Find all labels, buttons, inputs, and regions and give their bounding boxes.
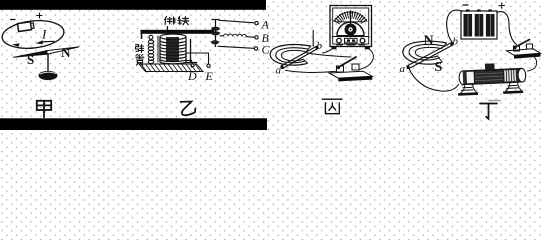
svg-text:a: a <box>400 63 406 75</box>
svg-text:I: I <box>41 27 47 42</box>
svg-text:C: C <box>262 43 271 57</box>
svg-text:N: N <box>424 34 434 49</box>
svg-text:N: N <box>61 45 71 60</box>
svg-text:S: S <box>435 60 443 75</box>
svg-text:E: E <box>205 69 214 83</box>
svg-text:S: S <box>27 52 34 67</box>
svg-text:a: a <box>276 65 282 77</box>
svg-text:D: D <box>187 69 197 83</box>
svg-text:A: A <box>261 17 270 31</box>
svg-text:b: b <box>453 36 459 48</box>
svg-text:b: b <box>317 40 323 52</box>
